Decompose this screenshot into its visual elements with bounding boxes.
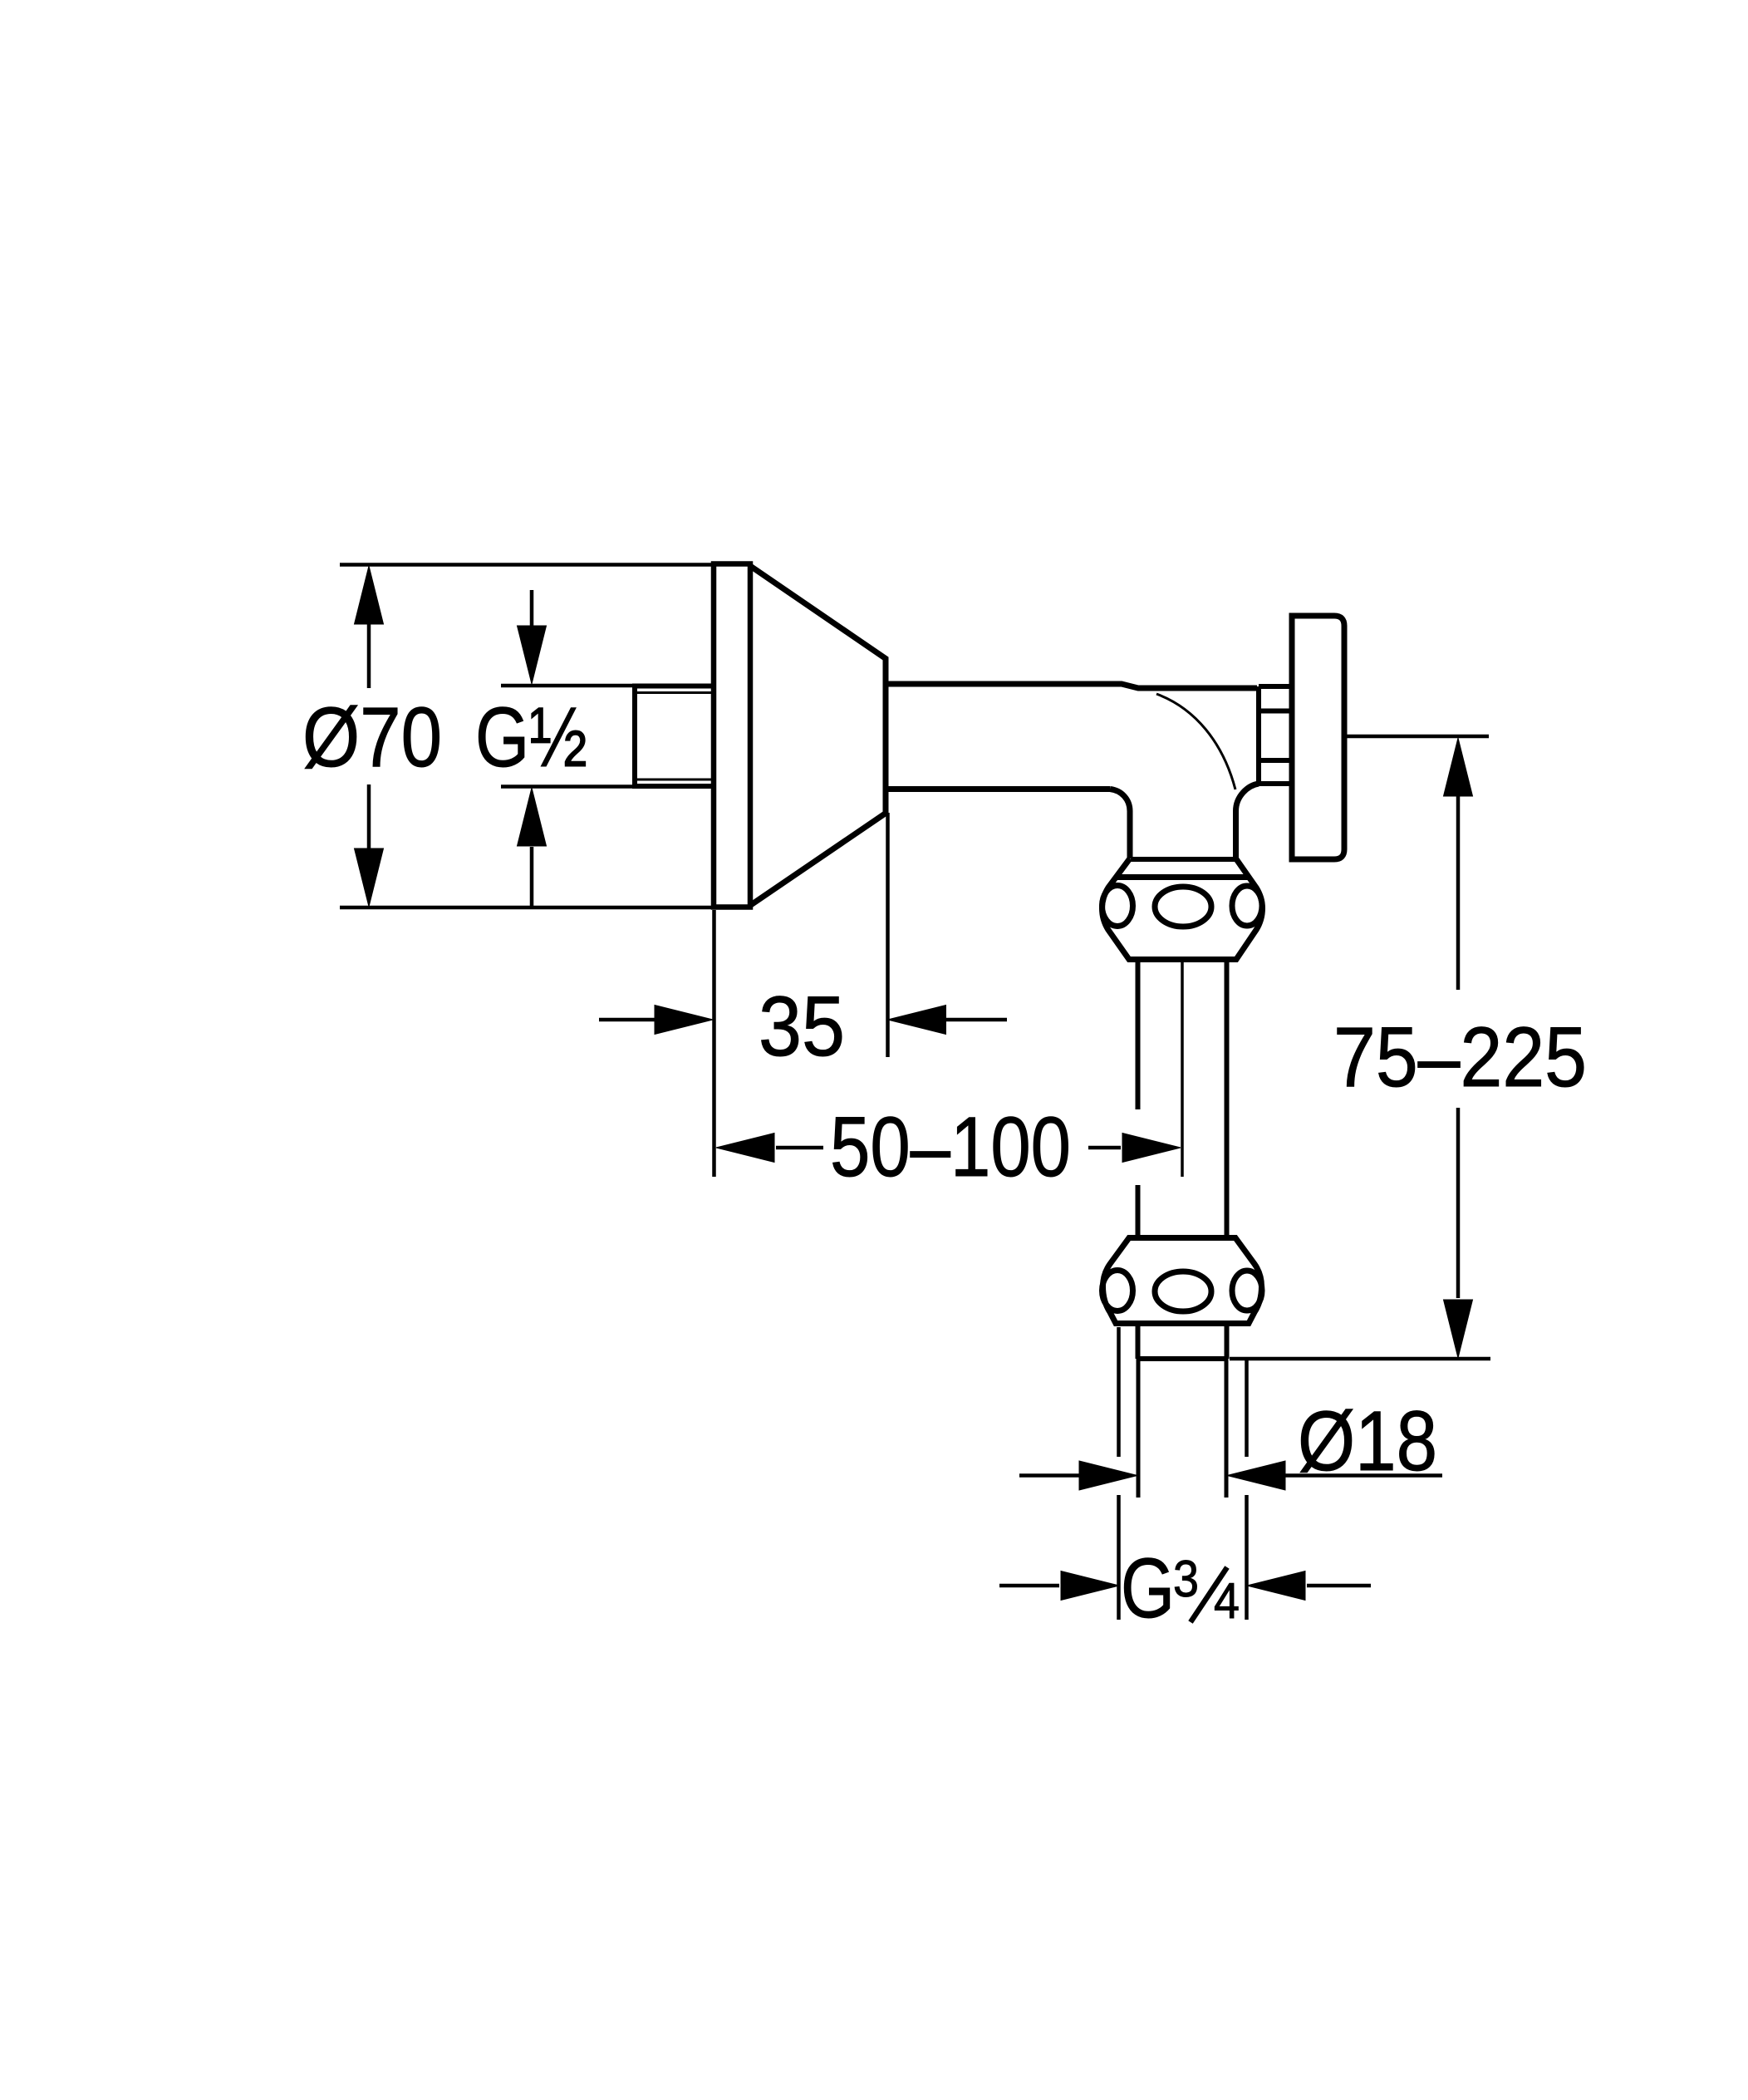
- svg-text:4: 4: [1214, 1573, 1240, 1629]
- svg-text:35: 35: [759, 979, 845, 1074]
- svg-text:75–225: 75–225: [1333, 1010, 1587, 1104]
- svg-text:G½: G½: [475, 690, 587, 784]
- svg-text:50–100: 50–100: [830, 1099, 1071, 1194]
- svg-text:Ø70: Ø70: [302, 690, 442, 784]
- svg-text:Ø18: Ø18: [1298, 1394, 1437, 1488]
- svg-text:G: G: [1121, 1541, 1175, 1635]
- svg-text:3: 3: [1173, 1551, 1199, 1608]
